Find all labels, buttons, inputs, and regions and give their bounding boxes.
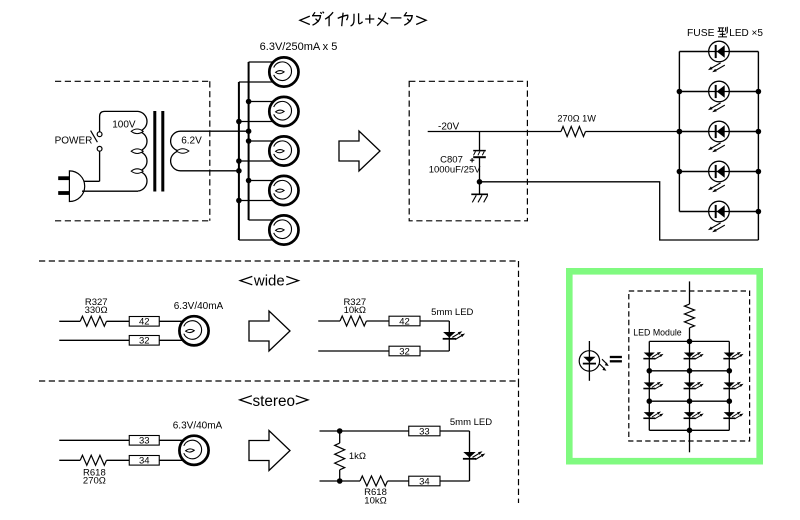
svg-text:33: 33 <box>139 436 150 447</box>
svg-text:32: 32 <box>139 336 150 347</box>
svg-text:FUSE: FUSE <box>687 28 715 39</box>
svg-text:LED ×5: LED ×5 <box>729 28 763 39</box>
svg-text:270Ω: 270Ω <box>83 476 106 487</box>
svg-text:5mm LED: 5mm LED <box>431 307 473 318</box>
svg-text:330Ω: 330Ω <box>85 305 108 316</box>
svg-text:1000uF/25V: 1000uF/25V <box>429 164 481 175</box>
svg-text:32: 32 <box>399 346 410 357</box>
svg-text:42: 42 <box>139 317 150 328</box>
svg-text:wide: wide <box>253 273 285 290</box>
svg-text:5mm LED: 5mm LED <box>450 417 492 428</box>
svg-text:270Ω 1W: 270Ω 1W <box>557 113 596 123</box>
svg-text:stereo: stereo <box>253 393 296 410</box>
svg-text:POWER: POWER <box>55 135 93 146</box>
svg-text:6.3V/250mA x 5: 6.3V/250mA x 5 <box>260 41 338 53</box>
svg-text:10kΩ: 10kΩ <box>364 495 386 506</box>
svg-text:6.3V/40mA: 6.3V/40mA <box>174 301 224 312</box>
svg-text:6.3V/40mA: 6.3V/40mA <box>173 421 223 432</box>
svg-text:10kΩ: 10kΩ <box>344 305 366 316</box>
svg-text:100V: 100V <box>112 120 136 131</box>
svg-text:42: 42 <box>399 316 410 327</box>
svg-text:1kΩ: 1kΩ <box>349 451 366 462</box>
svg-text:6.2V: 6.2V <box>181 136 202 147</box>
svg-text:34: 34 <box>419 476 430 487</box>
svg-text:34: 34 <box>139 456 150 467</box>
svg-text:LED Module: LED Module <box>633 327 682 337</box>
svg-text:33: 33 <box>419 426 430 437</box>
svg-text:-20V: -20V <box>438 121 459 132</box>
